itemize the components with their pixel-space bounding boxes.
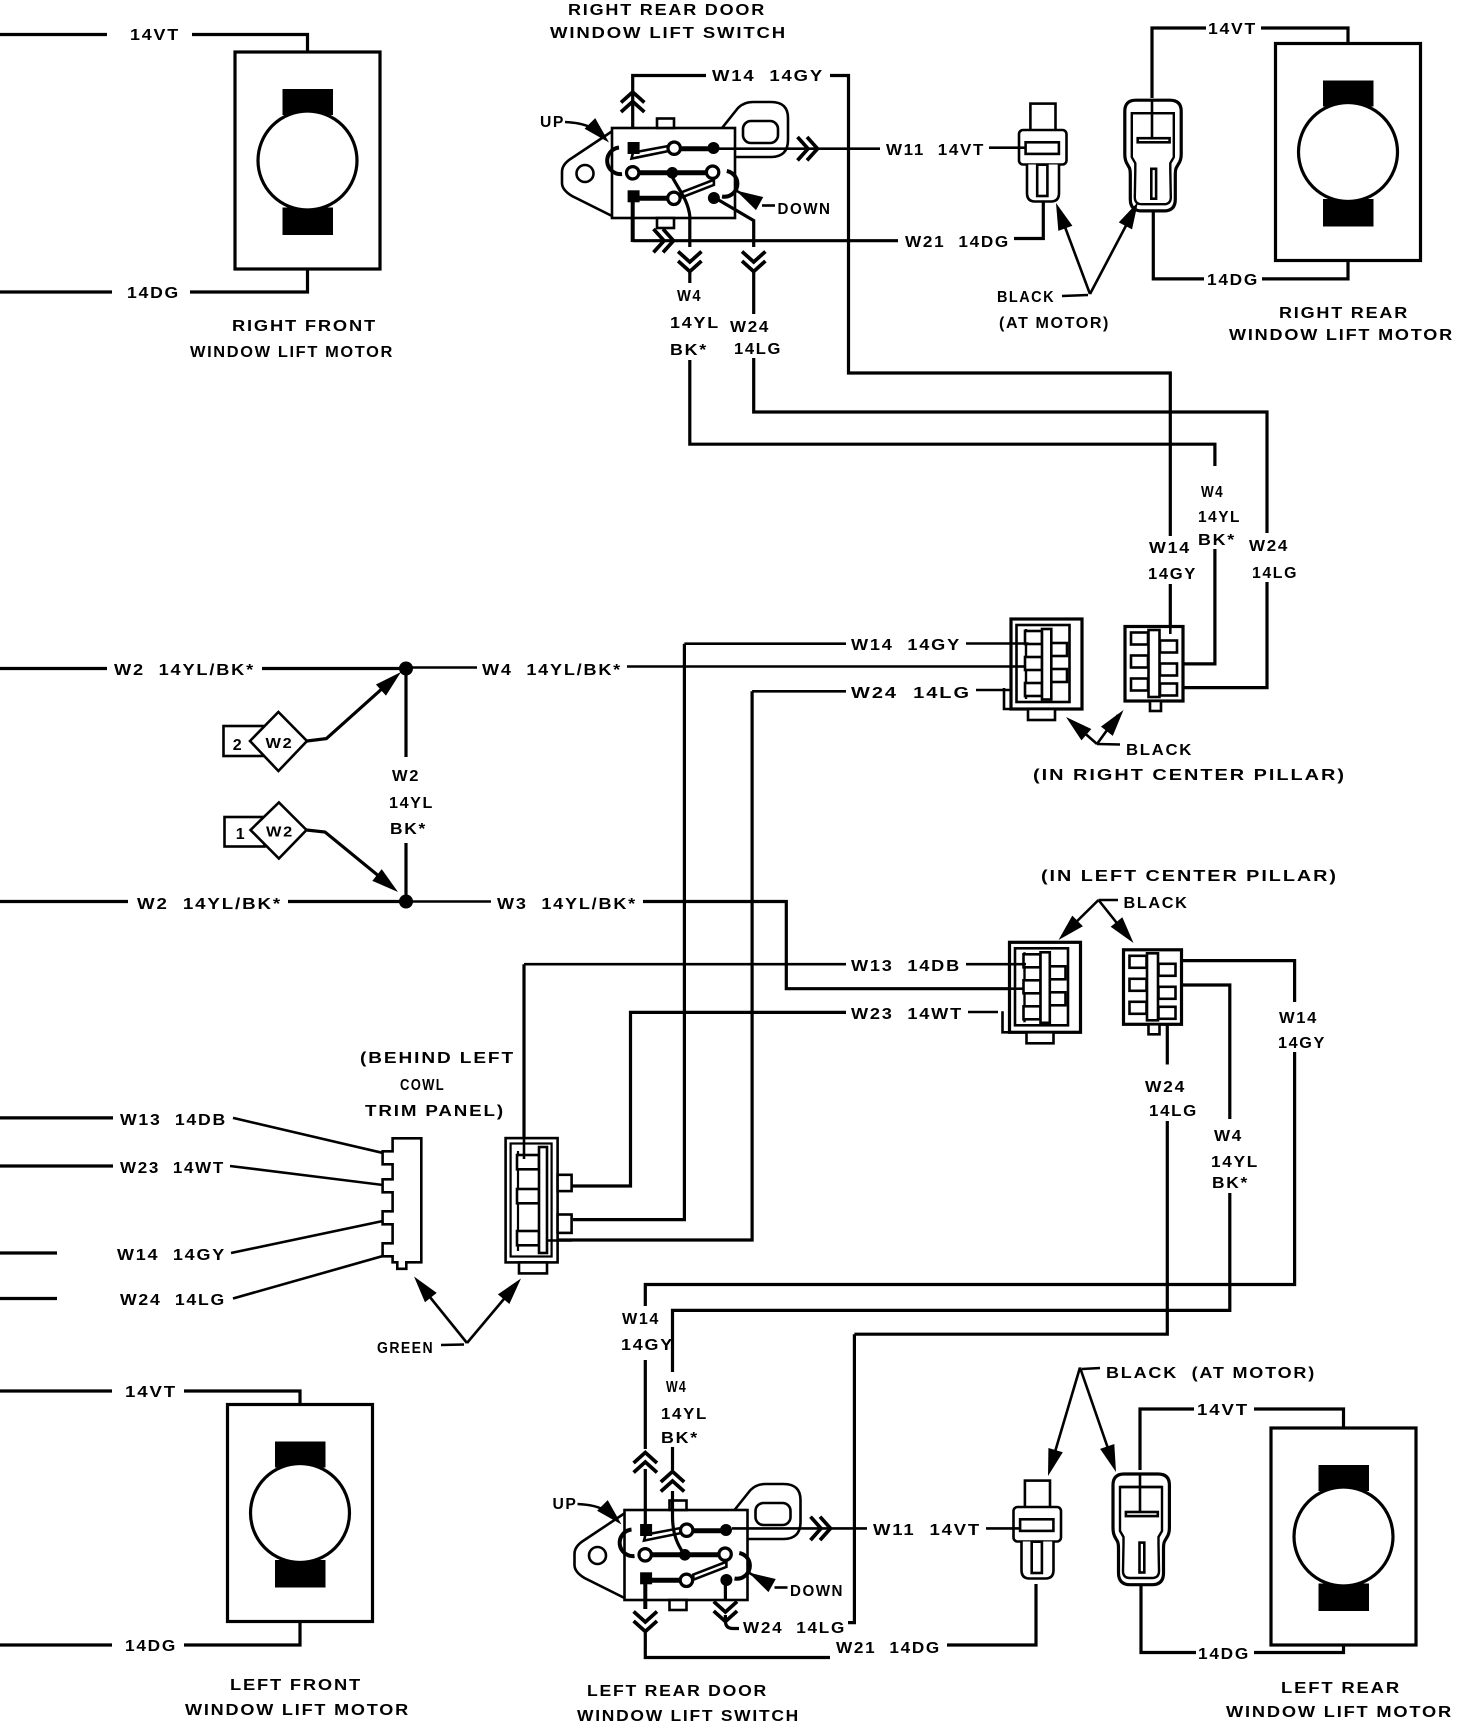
wire W13 14DB left stub xyxy=(0,1116,113,1119)
svg-text:W3 14YL/BK*: W3 14YL/BK* xyxy=(497,896,637,913)
wire W13 diagonal to cowl male xyxy=(233,1118,383,1153)
svg-text:W2 14YL/BK*: W2 14YL/BK* xyxy=(137,896,282,913)
svg-text:14YL: 14YL xyxy=(670,315,720,332)
wire 14VT right front motor xyxy=(0,33,107,36)
chevrons down W4 xyxy=(678,252,701,272)
svg-text:W13 14DB: W13 14DB xyxy=(851,958,961,975)
wire W14 entry overlay right pillar xyxy=(1011,642,1029,645)
svg-text:14DG: 14DG xyxy=(1198,1646,1250,1663)
wire W14 14GY from switch S1 up xyxy=(633,76,706,147)
wire W14 entry overlay right pillar male xyxy=(1169,626,1172,634)
wire W14 14GY big vertical to cowl xyxy=(573,644,684,1220)
wire 14VT left front motor xyxy=(0,1389,112,1392)
wire W23 diagonal to cowl male xyxy=(230,1166,383,1185)
svg-text:WINDOW LIFT MOTOR: WINDOW LIFT MOTOR xyxy=(1229,327,1454,344)
wire W4 staircase from left pillar xyxy=(1183,985,1230,1119)
svg-text:RIGHT FRONT: RIGHT FRONT xyxy=(232,318,377,335)
bullet connector male (at motor, left rear) xyxy=(1014,1481,1062,1579)
wire W21 to bullet male xyxy=(947,1584,1036,1645)
wire 14DG to motor M2 xyxy=(1262,224,1348,279)
wire W2 to junction B xyxy=(288,900,400,903)
connector cowl male (green) xyxy=(383,1138,422,1269)
chevrons up W4 xyxy=(661,1472,684,1492)
svg-text:14LG: 14LG xyxy=(1149,1103,1198,1120)
wire W14 diagonal to cowl male xyxy=(231,1221,383,1253)
wire W14 14GY label wire (right pillar) xyxy=(684,642,846,645)
wire W24 14LG label wire (right pillar) xyxy=(752,690,846,693)
wire 14VT right rear motor xyxy=(1152,28,1206,98)
wire W24 stub xyxy=(752,272,755,314)
arrow tail dash left pillar xyxy=(1099,899,1119,902)
svg-text:BK*: BK* xyxy=(1198,532,1236,549)
svg-text:14YL: 14YL xyxy=(661,1406,708,1423)
svg-text:LEFT REAR DOOR: LEFT REAR DOOR xyxy=(587,1683,768,1700)
svg-text:W14 14GY: W14 14GY xyxy=(851,637,961,654)
wire W4 chevron to center dot xyxy=(673,1491,684,1553)
wire 14VT to motor M4 xyxy=(1254,1409,1344,1468)
svg-text:W2: W2 xyxy=(266,824,294,841)
svg-text:W2: W2 xyxy=(266,735,294,752)
chevrons down W24 pin xyxy=(714,1602,737,1622)
chevrons up W14 xyxy=(621,92,644,112)
chevrons up W14 xyxy=(634,1453,657,1473)
wire 14DG to motor M4 xyxy=(1254,1608,1344,1653)
wire W14 14GY left stub xyxy=(0,1251,57,1254)
svg-text:W2 14YL/BK*: W2 14YL/BK* xyxy=(114,662,255,679)
svg-text:W24 14LG: W24 14LG xyxy=(120,1292,226,1309)
wire 14VT to motor M3 xyxy=(184,1391,300,1446)
wire 14VT into bullet female xyxy=(1151,100,1154,138)
wire 14DG left stub xyxy=(0,1643,112,1646)
svg-text:WINDOW LIFT MOTOR: WINDOW LIFT MOTOR xyxy=(185,1702,410,1719)
wire W11 entry overlay bullet top xyxy=(1019,146,1026,149)
svg-text:WINDOW LIFT SWITCH: WINDOW LIFT SWITCH xyxy=(550,25,787,42)
svg-text:14DG: 14DG xyxy=(127,285,180,302)
svg-text:14VT: 14VT xyxy=(1197,1402,1249,1419)
wire W2 lower left stub xyxy=(0,900,128,903)
wire W11 into bullet xyxy=(989,146,1026,149)
svg-text:W24: W24 xyxy=(1145,1079,1186,1096)
wire W14 staircase down-left xyxy=(645,1052,1294,1306)
wire W21 to label xyxy=(645,1632,830,1658)
wire W3 14YL/BK* to left pillar xyxy=(643,902,1023,989)
wire W4 into pillar male middle pin xyxy=(1184,549,1215,664)
svg-text:LEFT REAR: LEFT REAR xyxy=(1281,1680,1401,1697)
wire W14 chevron to dot xyxy=(644,1469,647,1530)
wire W4 from switch S1 row2 xyxy=(672,177,690,247)
svg-text:WINDOW LIFT MOTOR: WINDOW LIFT MOTOR xyxy=(1226,1704,1453,1721)
svg-text:W14: W14 xyxy=(1149,540,1191,557)
svg-text:BLACK: BLACK xyxy=(1124,895,1189,912)
chevron right W11 xyxy=(798,137,818,160)
wire W24 14LG left stub xyxy=(0,1297,57,1300)
arrow to right pillar male xyxy=(1097,715,1118,744)
wire W14 staircase from left pillar to switch S2 xyxy=(1183,961,1295,1002)
arrow to bullet male xyxy=(1059,211,1090,294)
wire W4 14YL/BK* to left pillar female middle pin xyxy=(627,665,1025,668)
wire W24 into pillar male bottom pin xyxy=(1184,582,1267,688)
wire W11 into bullet male xyxy=(986,1527,1021,1530)
bullet connector female (at motor, right rear) xyxy=(1125,100,1181,211)
svg-text:14YL: 14YL xyxy=(1198,509,1241,526)
connector diamond W2 (1) xyxy=(251,803,307,859)
wire W4 into switch S2 row2 xyxy=(671,1447,674,1470)
wire W11 14VT from switch S1 xyxy=(719,147,880,150)
svg-text:W11 14VT: W11 14VT xyxy=(873,1522,981,1539)
svg-text:14VT: 14VT xyxy=(125,1384,177,1401)
wire W24 from left pillar male bottom xyxy=(1166,1025,1169,1065)
chevrons down W24 xyxy=(742,252,765,272)
svg-text:W14: W14 xyxy=(622,1311,660,1328)
arrow tail dash xyxy=(1062,295,1088,296)
connector pair left center pillar xyxy=(1003,942,1182,1043)
arrow to right pillar female xyxy=(1072,722,1097,744)
connector link box 1 xyxy=(225,817,265,847)
wire W13 into left pillar female top pin xyxy=(966,963,1026,966)
wire W14 into right pillar female top pin xyxy=(966,642,1028,645)
svg-text:(IN LEFT CENTER PILLAR): (IN LEFT CENTER PILLAR) xyxy=(1041,868,1338,885)
wire W2 to junction xyxy=(262,667,400,670)
svg-text:W21 14DG: W21 14DG xyxy=(836,1640,941,1657)
arrow to left pillar female xyxy=(1064,900,1099,934)
wire W24 to right pillar xyxy=(754,358,1267,533)
svg-text:W21 14DG: W21 14DG xyxy=(905,234,1010,251)
svg-text:W4 14YL/BK*: W4 14YL/BK* xyxy=(482,662,622,679)
wire W21 from switch S1 down xyxy=(631,200,635,242)
svg-text:14GY: 14GY xyxy=(1278,1035,1326,1052)
wire 14VT to motor M1 xyxy=(192,35,308,93)
svg-text:COWL: COWL xyxy=(400,1077,445,1094)
wire W23 14WT label wire xyxy=(572,1012,846,1186)
svg-text:W24 14LG: W24 14LG xyxy=(743,1620,846,1637)
connector diamond W2 (2) xyxy=(250,712,307,771)
arrow to cowl male xyxy=(421,1286,467,1343)
svg-text:W13 14DB: W13 14DB xyxy=(120,1112,227,1129)
chevron right W11 xyxy=(811,1517,831,1540)
wire 14DG from bullet to motor M2 xyxy=(1153,198,1204,279)
svg-text:W14 14GY: W14 14GY xyxy=(117,1247,226,1264)
wire W11 entry overlay bullet bottom xyxy=(1014,1527,1021,1530)
wire W24 staircase down-left xyxy=(854,1121,1167,1334)
svg-text:BK*: BK* xyxy=(670,342,708,359)
svg-text:LEFT FRONT: LEFT FRONT xyxy=(230,1677,362,1694)
chevrons down W21 xyxy=(634,1612,657,1632)
svg-text:RIGHT REAR DOOR: RIGHT REAR DOOR xyxy=(568,2,766,19)
svg-text:W14 14GY: W14 14GY xyxy=(712,68,824,85)
wire 14VT into motor M2 xyxy=(1261,28,1348,84)
wire W13 entry overlay cowl xyxy=(523,1139,526,1159)
motor M1 right front window lift motor xyxy=(235,52,380,269)
wire W24 into right pillar female bottom pin xyxy=(976,689,1010,692)
connector pair right center pillar xyxy=(1004,619,1183,720)
wire W21 to bullet xyxy=(1014,198,1043,239)
svg-text:W23 14WT: W23 14WT xyxy=(851,1006,963,1023)
arrow tail dash green xyxy=(441,1343,464,1346)
svg-text:14YL: 14YL xyxy=(389,795,434,812)
wire W2 14YL/BK* upper left stub xyxy=(0,667,107,670)
arrow tail dash right pillar xyxy=(1097,743,1120,746)
wire W13 14DB label wire xyxy=(524,963,846,966)
wire W23 into left pillar female bottom pin xyxy=(968,1011,998,1014)
switch S1 right rear door window lift switch xyxy=(540,102,832,228)
motor M3 left front window lift motor xyxy=(228,1405,373,1622)
wire W14 into pillar connector xyxy=(1169,584,1172,629)
wire W24 from switch S1 row3 xyxy=(714,197,754,247)
svg-text:14DG: 14DG xyxy=(125,1638,177,1655)
motor M2 right rear window lift motor xyxy=(1276,44,1421,261)
svg-text:14GY: 14GY xyxy=(1148,566,1197,583)
connector cowl female (green) xyxy=(506,1138,572,1273)
svg-text:14VT: 14VT xyxy=(130,27,180,44)
svg-text:(IN RIGHT CENTER PILLAR): (IN RIGHT CENTER PILLAR) xyxy=(1033,767,1346,784)
svg-text:W14: W14 xyxy=(1279,1010,1318,1027)
bullet connector male (at motor, right rear) xyxy=(1019,104,1067,202)
node junction A xyxy=(399,662,413,676)
svg-text:14LG: 14LG xyxy=(734,341,782,358)
arrow to bullet female xyxy=(1090,209,1135,295)
svg-text:BK*: BK* xyxy=(1212,1175,1249,1192)
svg-text:W24: W24 xyxy=(730,319,770,336)
svg-text:W4: W4 xyxy=(1214,1128,1243,1145)
svg-text:TRIM PANEL): TRIM PANEL) xyxy=(365,1103,505,1120)
wire W14 14GY to right pillar xyxy=(830,76,1170,537)
svg-text:W4: W4 xyxy=(666,1379,687,1396)
wire W24 14LG big vertical to cowl xyxy=(545,691,752,1240)
wire W4 from junction xyxy=(412,666,477,669)
wire 14DG from bullet to label xyxy=(1141,1586,1196,1653)
svg-text:BLACK (AT MOTOR): BLACK (AT MOTOR) xyxy=(1106,1365,1316,1382)
wire W3 from junction B xyxy=(412,900,491,903)
wire W24 from switch S2 row3 xyxy=(724,1579,727,1600)
arrow to bullet male S2 xyxy=(1052,1368,1080,1463)
wire W24 entry overlay cowl xyxy=(546,1239,572,1242)
wire W4 staircase down-left xyxy=(673,1193,1230,1372)
svg-text:14VT: 14VT xyxy=(1208,21,1257,38)
svg-text:BK*: BK* xyxy=(661,1430,699,1447)
wire W2 vertical lower xyxy=(404,843,407,897)
svg-text:BLACK: BLACK xyxy=(997,289,1055,306)
wire 14DG left stub xyxy=(0,290,112,293)
wire W14 into switch S2 row1 xyxy=(644,1360,647,1449)
wire 14DG from motor M1 xyxy=(190,232,308,292)
svg-text:WINDOW LIFT SWITCH: WINDOW LIFT SWITCH xyxy=(577,1708,800,1724)
svg-text:2: 2 xyxy=(233,737,244,754)
svg-text:14YL: 14YL xyxy=(1211,1154,1259,1171)
arrow tail dash S2 xyxy=(1082,1368,1100,1369)
svg-text:W11 14VT: W11 14VT xyxy=(886,142,985,159)
wire W24 diagonal to cowl male xyxy=(233,1256,383,1299)
wire W4 stub to label xyxy=(688,272,691,283)
svg-text:RIGHT REAR: RIGHT REAR xyxy=(1279,305,1409,322)
svg-text:W4: W4 xyxy=(1201,484,1224,501)
svg-text:W23 14WT: W23 14WT xyxy=(120,1160,225,1177)
wire 14DG from motor M3 xyxy=(184,1584,300,1645)
arrow to bullet female S2 xyxy=(1080,1368,1112,1461)
wire 14VT into bullet female bottom xyxy=(1139,1474,1142,1512)
wire W21 from switch S2 down xyxy=(643,1584,647,1609)
bullet connector female (at motor, left rear) xyxy=(1113,1474,1169,1585)
wire W23 14WT left stub xyxy=(0,1164,113,1167)
motor M4 left rear window lift motor xyxy=(1271,1428,1416,1645)
svg-text:W4: W4 xyxy=(677,288,702,305)
arrow from diamond 1 to junction B xyxy=(307,830,392,886)
wire W13 down to cowl female xyxy=(522,964,525,1160)
wire 14VT left rear motor xyxy=(1140,1409,1194,1470)
svg-text:(AT MOTOR): (AT MOTOR) xyxy=(999,315,1110,332)
arrow from diamond 2 to junction A xyxy=(307,678,394,741)
wire W4 entry overlay right pillar xyxy=(1011,665,1026,668)
connector link box 2 xyxy=(224,726,265,756)
svg-text:1: 1 xyxy=(236,826,247,843)
svg-text:GREEN: GREEN xyxy=(377,1340,434,1357)
wire W3 entry overlay left pillar xyxy=(1010,987,1024,990)
svg-text:(BEHIND LEFT: (BEHIND LEFT xyxy=(360,1050,515,1067)
svg-text:14GY: 14GY xyxy=(621,1337,674,1354)
arrow to cowl female xyxy=(467,1287,514,1343)
svg-text:W2: W2 xyxy=(392,768,420,785)
svg-text:BLACK: BLACK xyxy=(1126,742,1193,759)
svg-text:BK*: BK* xyxy=(390,821,427,838)
svg-text:WINDOW LIFT MOTOR: WINDOW LIFT MOTOR xyxy=(190,344,394,361)
wire W2 vertical between junctions xyxy=(404,675,407,757)
wire W24 vertical from above xyxy=(848,1334,854,1622)
wire W11 14VT from switch S2 xyxy=(732,1527,867,1530)
switch S2 left rear door window lift switch xyxy=(553,1484,845,1610)
svg-text:W24: W24 xyxy=(1249,538,1289,555)
arrow to left pillar male xyxy=(1099,900,1129,937)
svg-text:14LG: 14LG xyxy=(1252,565,1298,582)
svg-text:W24 14LG: W24 14LG xyxy=(851,685,971,702)
chevron right W21 xyxy=(654,229,674,252)
svg-text:14DG: 14DG xyxy=(1207,272,1259,289)
node junction B xyxy=(399,895,413,909)
wire W24 hook to label xyxy=(725,1615,739,1629)
wire W4 to right pillar xyxy=(690,360,1215,466)
